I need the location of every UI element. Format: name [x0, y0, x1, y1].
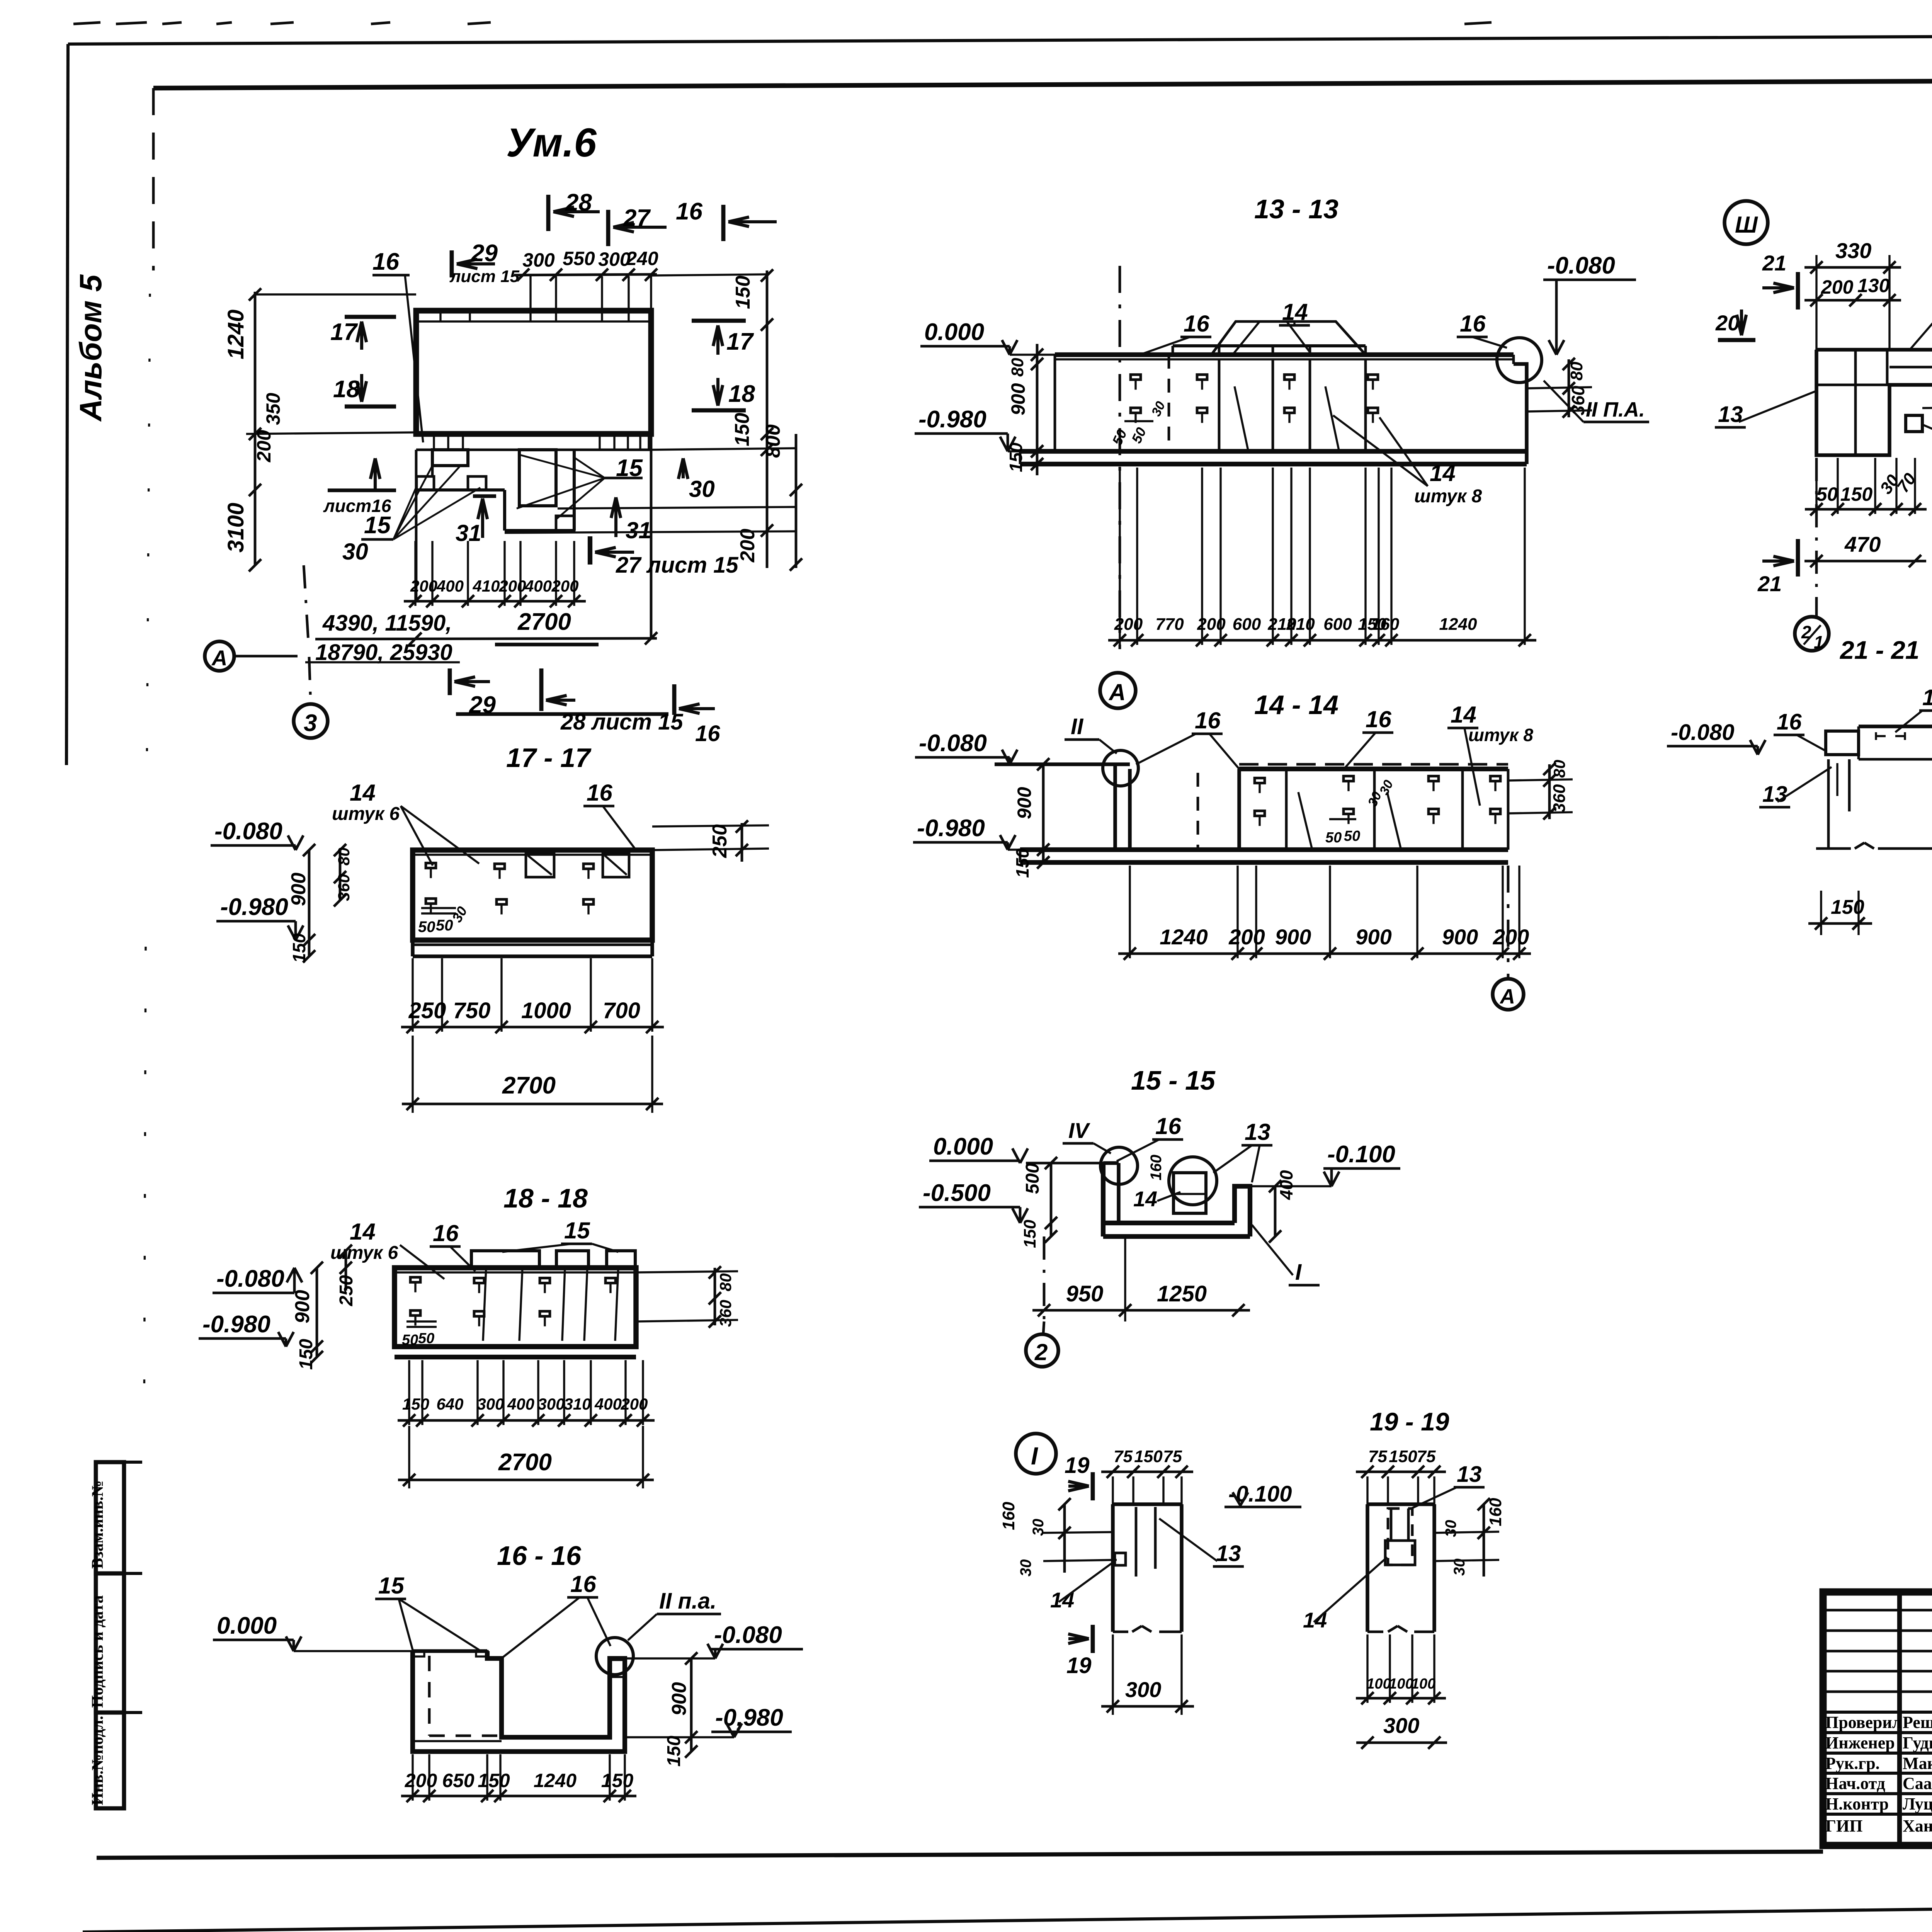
svg-text:16: 16 — [1155, 1113, 1181, 1139]
detail I pier — [1113, 1504, 1182, 1632]
svg-text:16: 16 — [587, 780, 612, 806]
svg-text:14: 14 — [350, 1219, 376, 1245]
plan section marks 17 18 left — [330, 317, 396, 406]
leader II PA s13 — [1544, 381, 1649, 422]
elev -0.080 s13 — [1543, 252, 1636, 355]
s19 top dims 75 150 75 — [1356, 1447, 1446, 1504]
svg-text:160: 160 — [999, 1502, 1018, 1530]
svg-text:30: 30 — [689, 476, 715, 502]
circle detail IV s15 — [1100, 1147, 1138, 1184]
leader 14 shtuk6 s17 — [332, 780, 479, 866]
plan axis circle A — [205, 565, 308, 671]
s15 axis circle 2 — [1026, 1321, 1058, 1367]
s15 bottom dims — [1032, 1236, 1250, 1321]
s18 right dims — [636, 1266, 738, 1328]
svg-text:1240: 1240 — [1439, 615, 1477, 634]
leader 16 s13 left — [1140, 311, 1211, 355]
svg-text:14: 14 — [350, 780, 376, 806]
detail I circle — [1016, 1434, 1056, 1474]
svg-text:Ум.6: Ум.6 — [506, 120, 597, 165]
elev -0.080 s16 — [625, 1622, 803, 1658]
plan mark 31 left — [456, 496, 496, 546]
svg-text:Альбом 5: Альбом 5 — [73, 274, 108, 422]
plan mark 31 right — [495, 497, 651, 645]
section title 14-14 — [1254, 690, 1338, 720]
svg-text:Н.контр: Н.контр — [1825, 1794, 1889, 1813]
svg-text:2700: 2700 — [498, 1449, 552, 1476]
svg-text:300: 300 — [1125, 1677, 1161, 1702]
svg-text:75: 75 — [1114, 1447, 1133, 1466]
leader 15 s16 — [375, 1573, 479, 1650]
svg-text:0.000: 0.000 — [924, 319, 984, 345]
svg-text:I: I — [1031, 1442, 1038, 1470]
svg-text:200: 200 — [410, 577, 437, 595]
svg-text:400: 400 — [436, 577, 464, 595]
detail I left dims — [999, 1498, 1117, 1577]
svg-text:30: 30 — [342, 539, 368, 565]
s16 right dims — [664, 1652, 697, 1767]
svg-text:80: 80 — [335, 847, 353, 866]
plan fan leader 15 left — [361, 466, 480, 539]
svg-text:150: 150 — [1134, 1447, 1163, 1466]
svg-text:18: 18 — [333, 376, 360, 403]
svg-text:1250: 1250 — [1157, 1281, 1207, 1306]
s16 bottom dim chain — [401, 1754, 636, 1802]
title block outer — [1823, 1592, 1932, 1845]
leader IV s15 — [1063, 1118, 1111, 1153]
s19 right dims — [1434, 1498, 1505, 1577]
svg-text:100: 100 — [1389, 1676, 1413, 1692]
svg-text:16: 16 — [1460, 311, 1486, 337]
svg-text:200: 200 — [1821, 276, 1854, 298]
s14 tent leader 16 — [1136, 707, 1239, 769]
svg-text:200: 200 — [253, 430, 275, 463]
d3 right dims — [1922, 341, 1932, 413]
title block left table — [1823, 1592, 1932, 1845]
svg-text:150: 150 — [289, 933, 309, 963]
s19 leader 13 — [1410, 1462, 1485, 1509]
elev -0.080 s14 — [915, 730, 1017, 764]
svg-text:21: 21 — [1757, 571, 1782, 596]
svg-text:310: 310 — [564, 1395, 591, 1413]
circle detail s13 right — [1497, 338, 1542, 383]
svg-text:200: 200 — [1228, 925, 1265, 949]
svg-text:IV: IV — [1068, 1118, 1091, 1143]
s18 left dims — [291, 1245, 357, 1370]
svg-text:14: 14 — [1430, 460, 1456, 486]
svg-text:200: 200 — [1197, 615, 1226, 634]
svg-text:14 - 14: 14 - 14 — [1254, 690, 1338, 720]
d3 cut mark 20 left — [1715, 310, 1755, 340]
svg-text:19 - 19: 19 - 19 — [1370, 1407, 1449, 1436]
svg-text:1240: 1240 — [223, 310, 248, 359]
svg-text:29: 29 — [469, 692, 496, 718]
svg-text:100: 100 — [1411, 1676, 1435, 1692]
svg-text:360: 360 — [1550, 784, 1569, 813]
svg-text:17: 17 — [330, 319, 358, 345]
svg-text:250: 250 — [408, 998, 446, 1023]
elev -0.980 s17 — [216, 894, 303, 940]
svg-text:400: 400 — [1276, 1170, 1296, 1200]
svg-text:II п.а.: II п.а. — [659, 1588, 716, 1614]
s21 dim 150 — [1808, 891, 1872, 935]
plan top dim arrows 28 27 16 — [548, 189, 777, 246]
s14 left dims — [1012, 758, 1049, 878]
detail I top dims 75 150 75 — [1101, 1447, 1193, 1504]
plan dim 2700 — [315, 609, 657, 645]
svg-text:Гудков: Гудков — [1903, 1733, 1932, 1752]
s15 body — [1026, 1163, 1250, 1236]
svg-text:16: 16 — [433, 1220, 459, 1246]
svg-text:16 - 16: 16 - 16 — [497, 1541, 582, 1571]
svg-text:210: 210 — [1286, 615, 1315, 634]
svg-text:300: 300 — [477, 1395, 504, 1413]
svg-text:II П.А.: II П.А. — [1586, 398, 1645, 421]
svg-text:-0.980: -0.980 — [917, 815, 985, 842]
leader 16 s14 right — [1345, 706, 1393, 768]
svg-text:2: 2 — [1801, 622, 1811, 642]
plan middle band — [416, 434, 651, 450]
svg-text:-0.980: -0.980 — [220, 894, 288, 920]
section 18-18 wall body — [395, 1251, 636, 1357]
svg-text:50: 50 — [418, 918, 435, 935]
plan fan leader 15 right — [517, 454, 643, 519]
d3 leader 13 — [1715, 390, 1818, 427]
s13 axis line — [1119, 266, 1121, 649]
svg-text:250: 250 — [709, 824, 731, 858]
svg-text:Ханин: Ханин — [1903, 1816, 1932, 1835]
svg-text:27: 27 — [623, 205, 651, 231]
svg-text:13: 13 — [1216, 1541, 1241, 1566]
section title 17-17 — [506, 743, 592, 773]
elev -0.500 s15 — [919, 1180, 1028, 1223]
svg-text:16: 16 — [570, 1571, 596, 1597]
plan mark 29 list15 top — [449, 240, 520, 286]
svg-text:15: 15 — [564, 1218, 590, 1243]
svg-text:160: 160 — [1371, 615, 1400, 634]
leader 16 s13 right — [1457, 311, 1507, 348]
s21 body — [1816, 726, 1932, 849]
svg-text:13: 13 — [1245, 1119, 1270, 1145]
svg-text:150: 150 — [664, 1736, 684, 1767]
detail III circle — [1725, 201, 1768, 244]
s13 body — [1020, 321, 1527, 464]
leader 13 s15 — [1213, 1119, 1272, 1182]
svg-text:30: 30 — [1017, 1560, 1034, 1577]
leader II s14 — [1065, 714, 1117, 753]
section title 13-13 — [1254, 194, 1338, 224]
svg-text:3100: 3100 — [223, 503, 248, 553]
s14 bottom dim chain — [1118, 866, 1531, 960]
s19 leader 14 — [1303, 1557, 1387, 1632]
svg-text:18790, 25930: 18790, 25930 — [315, 640, 452, 665]
svg-text:700: 700 — [603, 998, 640, 1023]
plan top dimension chain 300 550 300 240 — [514, 248, 658, 309]
section 18-18 embedded plates — [402, 1277, 616, 1349]
svg-text:16: 16 — [1366, 706, 1391, 732]
outer border left — [66, 44, 68, 765]
svg-text:15: 15 — [364, 512, 391, 539]
svg-text:Рук.гр.: Рук.гр. — [1825, 1754, 1880, 1773]
s21 elev -0.080 — [1667, 720, 1765, 755]
s21 leader 14 — [1895, 685, 1932, 732]
elev 0.000 s15 — [929, 1133, 1028, 1163]
s17 left dims — [287, 844, 353, 963]
svg-text:200: 200 — [405, 1770, 437, 1791]
svg-text:21 - 21: 21 - 21 — [1839, 636, 1919, 664]
svg-text:160: 160 — [1486, 1498, 1505, 1526]
s13 right dims 80 360 — [1527, 358, 1592, 418]
d3 dim 330 — [1804, 238, 1901, 350]
svg-text:16: 16 — [1777, 709, 1802, 735]
svg-text:13: 13 — [1457, 1462, 1482, 1487]
s13 embedded plates — [1109, 375, 1378, 448]
svg-text:75: 75 — [1417, 1447, 1436, 1466]
svg-text:13 - 13: 13 - 13 — [1254, 194, 1338, 224]
svg-text:2700: 2700 — [517, 609, 571, 635]
plan mark 27 list 15 — [590, 536, 738, 578]
svg-text:-0.100: -0.100 — [1327, 1141, 1395, 1168]
s15 left dims — [1020, 1157, 1057, 1248]
page top cut dashes — [73, 22, 1932, 24]
svg-text:2: 2 — [1034, 1339, 1048, 1365]
leader 16 s18 — [430, 1220, 475, 1271]
svg-text:50: 50 — [418, 1330, 434, 1347]
s13 left dims — [1006, 344, 1043, 475]
svg-text:17: 17 — [726, 328, 754, 355]
d3 leader 16 — [1909, 272, 1932, 351]
leader 14 shtuk8 s13 — [1333, 415, 1482, 507]
svg-text:-0.500: -0.500 — [923, 1180, 991, 1206]
svg-text:штук 6: штук 6 — [330, 1243, 398, 1263]
svg-text:29: 29 — [471, 240, 498, 267]
inner frame left dashed — [144, 88, 153, 1430]
svg-text:Луценко: Луценко — [1903, 1794, 1932, 1813]
leader 14 shtuk8 s14 — [1447, 702, 1533, 806]
svg-text:-0,980: -0,980 — [715, 1704, 783, 1731]
circle detail I s15 — [1169, 1157, 1217, 1205]
d3 dims 200 130 — [1804, 275, 1901, 306]
detail I cut mark 19 bottom — [1066, 1625, 1093, 1678]
svg-text:900: 900 — [287, 872, 310, 906]
svg-text:1: 1 — [1814, 632, 1824, 652]
svg-text:900: 900 — [1275, 925, 1311, 949]
s14 embedded plates — [1255, 776, 1500, 846]
svg-text:-0.980: -0.980 — [202, 1311, 270, 1338]
svg-text:300: 300 — [522, 249, 555, 271]
svg-text:50: 50 — [1344, 828, 1360, 844]
svg-text:0.000: 0.000 — [933, 1133, 993, 1160]
svg-text:31: 31 — [626, 517, 651, 543]
svg-text:80: 80 — [716, 1273, 735, 1291]
svg-text:200: 200 — [736, 529, 759, 563]
svg-text:4390, 11590,: 4390, 11590, — [322, 611, 452, 636]
plan top slab rectangle — [416, 311, 651, 434]
svg-text:50: 50 — [1325, 830, 1342, 846]
svg-text:250: 250 — [336, 1275, 357, 1306]
elev -0.980 s18 — [199, 1311, 294, 1347]
svg-text:Нач.отд: Нач.отд — [1825, 1774, 1885, 1793]
svg-text:150: 150 — [731, 413, 753, 446]
svg-text:19: 19 — [1065, 1453, 1090, 1478]
svg-text:16: 16 — [676, 198, 702, 225]
svg-text:900: 900 — [1007, 383, 1029, 415]
svg-text:500: 500 — [1022, 1163, 1043, 1194]
elev -0.100 s15 — [1250, 1141, 1400, 1186]
s17 right dim 250 — [652, 820, 769, 862]
svg-text:150: 150 — [1006, 442, 1026, 472]
svg-text:19: 19 — [1066, 1653, 1092, 1678]
outer border top — [68, 34, 1932, 44]
svg-text:штук 6: штук 6 — [332, 804, 400, 824]
svg-text:30: 30 — [1442, 1520, 1459, 1537]
svg-text:80: 80 — [1008, 358, 1027, 377]
svg-text:16: 16 — [372, 248, 399, 275]
plan bottom dim chain 200 400 410 200 400 200 — [404, 541, 586, 607]
svg-text:18 - 18: 18 - 18 — [503, 1183, 588, 1213]
s14 right dims — [1508, 760, 1573, 820]
svg-text:13: 13 — [1718, 402, 1743, 427]
svg-text:лист16: лист16 — [323, 496, 391, 516]
svg-text:21: 21 — [1762, 251, 1786, 275]
svg-text:1240: 1240 — [534, 1770, 577, 1791]
s14 axis circle A — [1493, 866, 1524, 1010]
svg-text:Макарова: Макарова — [1903, 1754, 1932, 1773]
plan title Um6 — [506, 120, 597, 165]
svg-text:2700: 2700 — [502, 1072, 556, 1099]
svg-text:640: 640 — [436, 1395, 463, 1413]
svg-text:400: 400 — [524, 577, 552, 595]
svg-text:-0.080: -0.080 — [1547, 252, 1615, 279]
svg-text:100: 100 — [1366, 1676, 1391, 1692]
svg-text:3: 3 — [304, 710, 317, 736]
elev -0.980 s16 — [625, 1704, 792, 1737]
svg-text:240: 240 — [626, 248, 658, 269]
plan section marks 17 18 right — [692, 321, 755, 410]
svg-text:0.000: 0.000 — [217, 1612, 277, 1639]
elev -0.980 s13 — [915, 406, 1020, 451]
svg-text:150: 150 — [296, 1339, 316, 1370]
svg-text:400: 400 — [507, 1395, 534, 1413]
svg-text:28: 28 — [565, 189, 592, 216]
elev 0.000 s13 — [920, 319, 1055, 355]
svg-text:150: 150 — [1831, 896, 1864, 918]
svg-text:360: 360 — [716, 1300, 735, 1327]
svg-text:1000: 1000 — [521, 998, 571, 1023]
svg-text:Инв.№подл.: Инв.№подл. — [89, 1716, 107, 1805]
d3 cut mark 21 bottom — [1757, 539, 1798, 596]
svg-text:16: 16 — [695, 721, 720, 746]
svg-text:360: 360 — [335, 874, 353, 901]
svg-text:-0.080: -0.080 — [216, 1265, 284, 1292]
svg-text:150: 150 — [601, 1770, 634, 1791]
svg-text:16: 16 — [1184, 311, 1209, 337]
leader 16 s15 — [1117, 1113, 1183, 1161]
svg-text:80: 80 — [1550, 760, 1568, 778]
plan lower outline with notches — [416, 434, 651, 639]
d3 leader 14 — [1923, 423, 1932, 449]
section title 15-15 — [1131, 1065, 1216, 1095]
section 17-17 wall body — [413, 850, 652, 956]
d3 plan body — [1816, 350, 1932, 455]
circle detail marker II s16 — [596, 1638, 633, 1675]
s19 bottom dims 100 100 100 — [1356, 1634, 1447, 1749]
svg-text:200: 200 — [1114, 615, 1143, 634]
elev -0.080 s17 — [211, 818, 303, 850]
svg-text:160: 160 — [1148, 1155, 1165, 1180]
svg-text:150: 150 — [1020, 1219, 1039, 1248]
section 17-17 embedded plates — [418, 853, 629, 935]
svg-text:-0.080: -0.080 — [1671, 720, 1734, 745]
plan mark 30 left — [323, 458, 396, 565]
plan right dimension lines — [505, 269, 802, 571]
svg-text:950: 950 — [1066, 1281, 1104, 1306]
svg-text:лист 15: лист 15 — [449, 267, 520, 286]
plan axis circle 3 — [294, 657, 328, 738]
section 16-16 channel body — [413, 1651, 625, 1752]
inner frame bottom — [97, 1852, 1823, 1858]
svg-text:350: 350 — [262, 393, 284, 425]
svg-text:400: 400 — [594, 1395, 622, 1413]
svg-text:1240: 1240 — [1160, 925, 1208, 949]
svg-text:900: 900 — [1355, 925, 1391, 949]
detail I cut mark 19 top — [1065, 1453, 1093, 1500]
svg-text:16: 16 — [1195, 707, 1221, 733]
svg-text:28 лист 15: 28 лист 15 — [560, 709, 683, 735]
svg-text:-0.080: -0.080 — [919, 730, 987, 757]
svg-text:200: 200 — [498, 577, 526, 595]
svg-text:330: 330 — [1835, 238, 1871, 263]
svg-text:470: 470 — [1844, 532, 1881, 556]
svg-text:А: А — [211, 646, 227, 670]
section title 16-16 — [497, 1541, 582, 1571]
d3 bottom dims 50 150 30 70 — [1805, 458, 1927, 515]
s17 dim 2700 — [402, 1036, 663, 1113]
leader 15 s18 — [502, 1218, 618, 1252]
svg-text:17 - 17: 17 - 17 — [506, 743, 592, 773]
margin stamp boxes — [89, 1462, 142, 1808]
svg-text:Инженер: Инженер — [1825, 1733, 1895, 1752]
s18 bottom dim chain — [398, 1360, 655, 1427]
svg-text:Решетникова: Решетникова — [1903, 1713, 1932, 1732]
detail I bottom dim 300 — [1101, 1634, 1194, 1715]
svg-text:600: 600 — [1233, 615, 1261, 634]
svg-text:750: 750 — [453, 998, 491, 1023]
svg-text:900: 900 — [1442, 925, 1478, 949]
svg-text:штук 8: штук 8 — [1414, 486, 1482, 507]
svg-text:14: 14 — [1922, 685, 1932, 710]
svg-text:770: 770 — [1155, 615, 1184, 634]
svg-text:I: I — [1295, 1260, 1302, 1285]
s13 axis circle A — [1100, 673, 1136, 708]
svg-text:13: 13 — [1762, 782, 1787, 807]
s21 leader 13 — [1759, 767, 1832, 807]
svg-text:27 лист 15: 27 лист 15 — [616, 553, 738, 578]
s15 dims 160 400 — [1148, 1155, 1296, 1243]
svg-text:-0.080: -0.080 — [214, 818, 282, 845]
svg-text:600: 600 — [1323, 615, 1352, 634]
album label — [73, 274, 108, 422]
svg-text:20: 20 — [1715, 311, 1740, 335]
svg-text:150: 150 — [402, 1395, 429, 1413]
svg-text:150: 150 — [1840, 483, 1873, 505]
svg-text:50: 50 — [436, 917, 453, 934]
svg-text:15: 15 — [378, 1573, 405, 1599]
circle detail s14 left — [1103, 750, 1138, 786]
plan coords labels — [305, 611, 460, 665]
detail I leader 14 — [1050, 1561, 1115, 1612]
svg-text:75: 75 — [1163, 1447, 1182, 1466]
